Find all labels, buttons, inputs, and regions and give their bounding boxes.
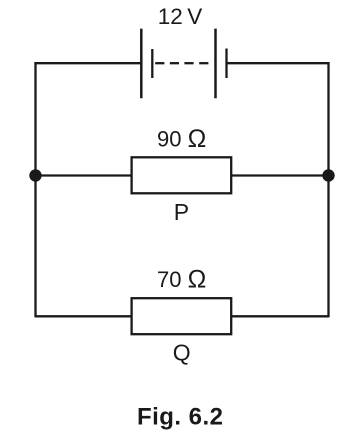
wire left rail (vertical) bbox=[34, 62, 36, 317]
resistor P bbox=[132, 157, 232, 193]
wire top-left (left rail to battery) bbox=[34, 62, 141, 64]
node left junction bbox=[29, 169, 41, 181]
svg-text:P: P bbox=[174, 199, 189, 225]
resistor Q bbox=[132, 298, 232, 334]
wire P-right (resistor P to right node) bbox=[231, 174, 328, 176]
wire P-left (left node to resistor P) bbox=[36, 174, 132, 176]
node right junction bbox=[322, 169, 334, 181]
svg-text:Ω: Ω bbox=[188, 266, 207, 294]
battery V1 cell 2 bbox=[216, 29, 227, 99]
wire top-right (battery to right rail) bbox=[227, 62, 330, 64]
svg-text:Q: Q bbox=[173, 340, 191, 366]
svg-text:Fig. 6.2: Fig. 6.2 bbox=[137, 404, 223, 431]
svg-text:90: 90 bbox=[157, 127, 181, 152]
label 70 ohm (resistor Q value) bbox=[157, 266, 206, 294]
battery V1 cell 1 bbox=[141, 29, 152, 99]
wire Q-right (resistor Q to right rail) bbox=[231, 315, 328, 317]
svg-text:70: 70 bbox=[157, 267, 181, 292]
wire right rail (vertical) bbox=[327, 62, 329, 317]
label 90 ohm (resistor P value) bbox=[157, 125, 206, 153]
wire Q-left (left rail to resistor Q) bbox=[36, 315, 132, 317]
svg-text:12 V: 12 V bbox=[158, 4, 203, 29]
svg-text:Ω: Ω bbox=[188, 125, 207, 153]
wire dashed link between battery cells bbox=[155, 62, 208, 64]
